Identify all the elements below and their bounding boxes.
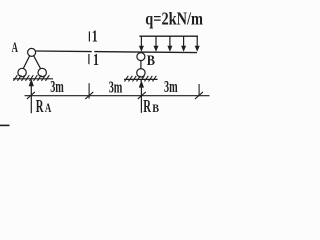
support A pin circle [28,48,36,56]
dimension tick at B [138,92,146,99]
support A right leg [33,55,40,68]
support B bottom circle [137,69,145,77]
load arrow 5 [195,36,200,52]
support B link [140,61,142,69]
support A left roller [18,68,26,76]
dimension line [25,95,210,97]
svg-text:R: R [143,98,151,117]
section mark 1 (above beam) [88,31,90,41]
ground hatching under A [14,75,50,81]
load arrow 1 [139,36,144,52]
ground line under B [124,78,158,80]
support B top circle [137,53,145,61]
ground line under A [13,78,53,80]
beam AB (horizontal member) [36,50,92,53]
ground hatching under B [125,76,157,82]
support A left leg [23,55,30,68]
load arrow 3 [167,36,172,52]
svg-text:3m: 3m [109,78,123,96]
svg-text:R: R [36,98,44,117]
label RB [143,98,159,117]
dimension tick at A [27,92,35,99]
section mark 1 (below beam) [88,54,90,64]
extension line at section [88,83,90,98]
dimension tick at section [85,92,93,99]
svg-text:B: B [147,52,155,68]
svg-text:A: A [12,38,19,55]
label RA [36,98,52,117]
stray mark bottom-left [0,124,10,126]
svg-text:3m: 3m [164,78,178,96]
svg-text:q=2kN/m: q=2kN/m [145,10,203,29]
svg-text:1: 1 [93,51,99,69]
distributed load top line [139,35,198,37]
svg-text:B: B [152,103,159,116]
reaction RB arrow [139,80,144,113]
reaction RA arrow [29,79,34,114]
dimension tick at right end [195,92,203,99]
svg-text:3m: 3m [50,77,64,95]
load arrow 2 [154,36,159,52]
svg-text:A: A [45,102,51,116]
wire beam right segment [94,52,197,53]
load arrow 4 [181,36,186,52]
svg-text:1: 1 [92,28,98,46]
extension line at right end [198,84,200,96]
support A right roller [38,68,46,76]
